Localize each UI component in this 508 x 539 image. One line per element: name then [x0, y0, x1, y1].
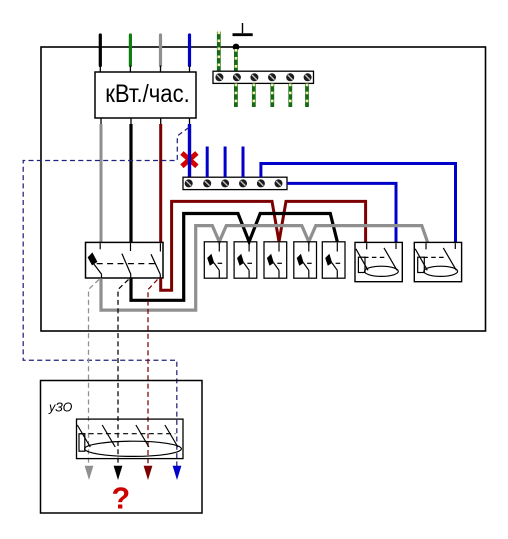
wire: meter out neutral blue (to N bus) [188, 124, 191, 177]
electricity meter W1 "кВт./час." [95, 72, 196, 118]
breaker QF5 (1-pole) [294, 242, 317, 278]
wire: meter out gray (to main breaker pole 1) [100, 124, 103, 243]
breaker QF3 (1-pole) [234, 242, 257, 278]
arrow: blue output [173, 466, 182, 480]
red question mark [111, 482, 130, 516]
red X: forbidden/broken neutral [182, 153, 197, 166]
wire: gray feeder loop and distribution run [101, 226, 428, 311]
arrow: gray output [85, 466, 94, 480]
wire: black feeder loop and distribution run [131, 214, 337, 301]
wire: N bus to RCD Q2 (blue) [261, 164, 456, 243]
wire: PE drop from junction (green/yellow) [234, 49, 238, 71]
main breaker QF1 (3-pole) [86, 242, 164, 278]
wire: service input L (black) [99, 35, 102, 72]
RCD Q1 [355, 242, 402, 281]
wire: PE drop from outside (green/yellow) [217, 32, 221, 71]
breaker QF6 (1-pole) [322, 242, 345, 278]
wire: meter output leads [101, 118, 190, 125]
main distribution board enclosure [41, 47, 486, 331]
wire: dark red feeder loop and distribution run [161, 201, 366, 290]
ground symbol [233, 23, 253, 35]
N bus bar [183, 177, 287, 189]
wire: service input N (blue) [188, 35, 191, 72]
breaker QF2 (1-pole) [204, 242, 227, 278]
wires: PE branch stubs (green/yellow) [236, 84, 307, 107]
svg-text:уЗО: уЗО [48, 401, 73, 415]
dashed wire: gray phase to УЗО [89, 280, 100, 466]
RCD Q2 [414, 242, 461, 281]
wire: service input PE (green) [129, 35, 132, 72]
breaker QF4 (1-pole) [264, 242, 287, 278]
arrow: black output [114, 466, 123, 480]
wires: N bus spare stubs (blue) [207, 147, 243, 178]
arrow: dark red output [144, 466, 153, 480]
dashed wire: black phase to УЗО [118, 280, 129, 466]
label: УЗО [48, 401, 73, 415]
dashed wire: proposed neutral re-route to УЗО (navy) [23, 128, 189, 478]
svg-text:?: ? [111, 482, 130, 516]
wire: N bus to RCD Q1 (blue) [287, 183, 396, 242]
junction node: PE to enclosure top [233, 44, 240, 51]
wire: meter out dark red (to main breaker pole 3) [159, 124, 162, 243]
wire: service input (gray) [159, 35, 162, 72]
svg-text:кВт./час.: кВт./час. [105, 80, 190, 108]
PE bus bar [213, 71, 314, 83]
wire: meter out black (to main breaker pole 2) [129, 124, 132, 243]
RCD symbol (4-pole) inside УЗО [77, 419, 184, 459]
УЗО enclosure box [41, 381, 203, 514]
dashed wire: dark red phase to УЗО [148, 280, 158, 466]
